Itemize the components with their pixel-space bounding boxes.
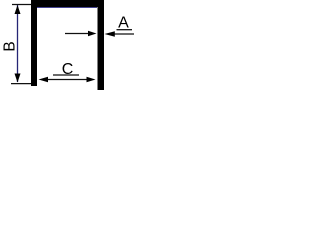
arrowhead B down <box>15 74 21 83</box>
channel profile <box>31 0 104 90</box>
arrow A outside head <box>105 31 115 36</box>
inner top edge shading <box>37 6 97 8</box>
arrow A outside shaft <box>114 33 134 35</box>
extension tick bottom <box>11 83 31 85</box>
arrow A inside shaft <box>65 33 89 35</box>
dimension line C <box>46 79 89 81</box>
svg-text:A: A <box>118 15 129 32</box>
arrowhead C left <box>39 77 49 82</box>
background <box>0 0 139 96</box>
extension tick top <box>12 4 31 6</box>
svg-text:B: B <box>2 41 19 51</box>
underline A <box>117 29 133 31</box>
arrowhead B up <box>15 5 21 14</box>
arrow A inside head <box>88 31 97 36</box>
underline C <box>53 74 79 76</box>
arrowhead C right <box>87 77 96 82</box>
dimension line B <box>17 5 19 82</box>
